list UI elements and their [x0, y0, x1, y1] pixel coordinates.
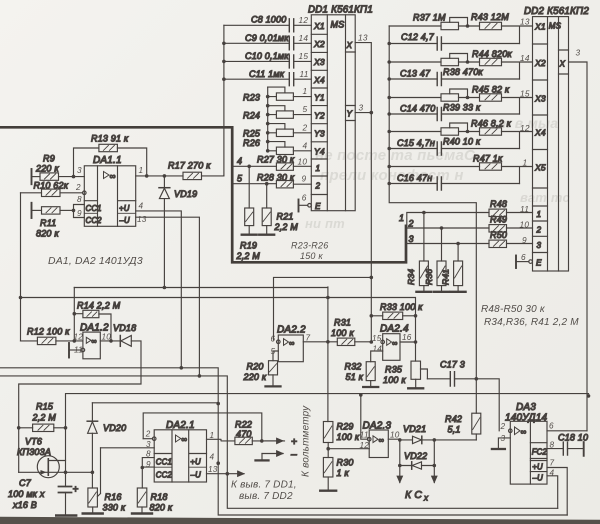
- wire +U vertical to DA2.1 pin4 and bottom rail: [216, 404, 567, 515]
- svg-text:VD22: VD22: [404, 451, 427, 461]
- svg-text:R22: R22: [235, 419, 252, 429]
- svg-text:13: 13: [208, 465, 218, 474]
- node K Cx arrows: [400, 466, 435, 503]
- svg-text:9: 9: [146, 460, 151, 469]
- resistor R22 470: [235, 419, 285, 444]
- svg-text:8: 8: [550, 440, 555, 449]
- svg-text:6: 6: [302, 192, 307, 202]
- svg-text:VT6: VT6: [25, 437, 42, 447]
- resistor R9 220k: [32, 154, 85, 185]
- capacitor C7 100mk x 16V: [8, 472, 79, 515]
- svg-text:14: 14: [299, 33, 309, 43]
- svg-text:С10 0,1мк: С10 0,1мк: [245, 51, 289, 61]
- svg-text:R44 820к: R44 820к: [472, 49, 512, 59]
- wire DA3 -U pin4: [547, 476, 558, 509]
- wire DA3 pin3 ground: [492, 438, 510, 449]
- diode VD22: [398, 440, 436, 469]
- svg-text:DA2.2: DA2.2: [277, 324, 306, 335]
- svg-text:13: 13: [137, 215, 147, 224]
- svg-text:R43 12М: R43 12М: [471, 12, 509, 22]
- svg-text:220 к: 220 к: [35, 164, 59, 174]
- svg-text:820 к: 820 к: [36, 229, 59, 239]
- transistor VT6 KP303A: [17, 428, 67, 478]
- svg-text:2: 2: [536, 225, 542, 234]
- resistor R43 12M: [471, 12, 533, 44]
- svg-text:R23: R23: [243, 92, 260, 102]
- svg-text:8: 8: [146, 449, 151, 458]
- resistor R29 100k: [323, 421, 359, 450]
- resistor R47 1k: [389, 153, 532, 183]
- svg-text:470: 470: [236, 429, 252, 439]
- svg-text:5: 5: [303, 104, 308, 114]
- svg-text:R24: R24: [243, 110, 260, 120]
- op-amp DA3 140UD14: [505, 402, 548, 484]
- svg-text:CC2: CC2: [156, 470, 173, 479]
- svg-text:15: 15: [372, 334, 382, 343]
- svg-text:5: 5: [271, 347, 276, 356]
- svg-text:–U: –U: [532, 473, 544, 482]
- svg-text:1: 1: [303, 86, 308, 96]
- svg-text:1: 1: [210, 431, 215, 440]
- svg-text:3: 3: [537, 241, 542, 250]
- svg-text:11: 11: [300, 69, 309, 79]
- svg-text:5,1: 5,1: [448, 424, 461, 434]
- wire C17 to DA3 input: [476, 379, 499, 431]
- label K voltmetru: [301, 405, 312, 477]
- svg-text:R12 100 к: R12 100 к: [27, 327, 70, 337]
- svg-text:14: 14: [373, 344, 383, 353]
- resistor R28 30k: [257, 173, 311, 188]
- resistor R14 2,2M feedback: [73, 288, 121, 341]
- svg-text:R19: R19: [240, 241, 257, 251]
- svg-text:Y: Y: [347, 110, 353, 119]
- svg-text:16: 16: [402, 333, 412, 342]
- svg-text:К выв. 7 DD1,: К выв. 7 DD1,: [231, 480, 297, 491]
- wire supply bus -U DA1 (y376): [0, 374, 227, 474]
- label R48-R50 30k / R34,R36,R41 2,2M: [481, 304, 579, 328]
- svg-text:ни пт: ни пт: [305, 216, 345, 231]
- wire DA1.1 output: [136, 174, 183, 178]
- svg-text:С18 10: С18 10: [558, 432, 588, 442]
- node voltmeter plus arrow: [265, 437, 297, 448]
- op-amp DA2.3: [328, 395, 391, 458]
- svg-text:Y1: Y1: [314, 92, 325, 102]
- svg-text:3: 3: [77, 166, 82, 175]
- op-amp DA2.1: [101, 420, 207, 482]
- svg-text:R38 470к: R38 470к: [443, 67, 483, 77]
- svg-text:R40 10 к: R40 10 к: [443, 136, 481, 146]
- node voltmeter minus arrow: [256, 450, 298, 461]
- svg-text:–U: –U: [119, 216, 131, 225]
- resistor R48 30k: [489, 199, 533, 217]
- svg-text:DD2 К561КП2: DD2 К561КП2: [524, 6, 589, 17]
- svg-text:С8 1000: С8 1000: [251, 15, 286, 25]
- svg-text:∞: ∞: [110, 171, 116, 181]
- resistor R21 2,2M: [259, 184, 298, 235]
- op-amp DA2.4: [371, 323, 416, 361]
- svg-text:X2: X2: [313, 39, 325, 49]
- faint print bleed-through (decorative): [305, 115, 570, 231]
- svg-text:140УД14: 140УД14: [505, 412, 548, 423]
- svg-text:R21: R21: [277, 212, 294, 222]
- svg-text:С13 47: С13 47: [400, 68, 431, 78]
- resistor R41 2,2M: [440, 244, 465, 292]
- label K vyv.7 DD1: [231, 480, 297, 503]
- svg-text:E: E: [536, 259, 542, 268]
- svg-text:R15: R15: [36, 402, 54, 412]
- svg-text:2,2 М: 2,2 М: [236, 251, 261, 261]
- svg-text:R18: R18: [151, 492, 168, 502]
- op-amp DA2.2: [273, 324, 306, 361]
- svg-text:1: 1: [399, 213, 404, 223]
- resistor R10 62k: [21, 181, 87, 197]
- wire DA2.1 output pin1: [207, 439, 235, 441]
- resistor R45 82k: [472, 84, 533, 114]
- svg-text:100 к: 100 к: [331, 328, 354, 338]
- svg-text:4: 4: [139, 201, 144, 210]
- svg-text:13: 13: [358, 32, 368, 42]
- svg-text:2: 2: [302, 122, 308, 132]
- svg-text:R10 62к: R10 62к: [34, 181, 69, 191]
- svg-text:E: E: [315, 202, 321, 211]
- svg-text:CC1: CC1: [86, 204, 102, 213]
- multiplexer DD2 K561KP2: [524, 6, 589, 271]
- capacitor C16 47n: [389, 173, 519, 190]
- resistor R30 1k: [320, 449, 353, 491]
- wire net 1: [399, 211, 489, 226]
- svg-text:2: 2: [145, 429, 151, 438]
- wire VD19 net vertical to R29: [327, 287, 329, 422]
- screen shield thick line: [0, 127, 406, 262]
- wire net 2: [407, 219, 489, 230]
- DA2.3 pin numbers: [360, 430, 400, 450]
- svg-text:ват тс: ват тс: [520, 190, 570, 205]
- svg-text:R45 82 к: R45 82 к: [472, 84, 510, 94]
- svg-text:КП303А: КП303А: [17, 447, 51, 457]
- svg-text:R36: R36: [424, 269, 434, 285]
- svg-text:прели конефаст н: прели конефаст н: [320, 167, 464, 184]
- svg-text:R34,R36, R41 2,2 М: R34,R36, R41 2,2 М: [484, 317, 579, 328]
- svg-text:2: 2: [75, 183, 81, 192]
- svg-text:С12 4,7: С12 4,7: [401, 32, 435, 42]
- resistor R11 820k: [32, 203, 85, 239]
- bottom page edge shadow: [0, 517, 600, 524]
- resistor R12 100k: [21, 327, 83, 345]
- wire DA2.3 output: [388, 438, 412, 442]
- svg-text:X3: X3: [534, 94, 546, 104]
- capacitor C12 4,7: [389, 32, 519, 50]
- resistor R15 2,2M: [19, 402, 68, 432]
- wire R10 node vertical: [19, 193, 23, 341]
- svg-text:Y2: Y2: [314, 110, 325, 120]
- wire DA1.1 -U pin 13 to bus: [136, 217, 200, 376]
- svg-text:MS: MS: [549, 22, 562, 31]
- svg-text:R34: R34: [406, 269, 416, 285]
- svg-text:R37 1М: R37 1М: [413, 13, 446, 23]
- svg-text:12: 12: [299, 15, 309, 25]
- svg-text:R20: R20: [247, 362, 264, 372]
- resistor R24 150k trimmer: [243, 106, 311, 126]
- svg-text:1: 1: [537, 210, 542, 219]
- svg-text:К вольтметру: К вольтметру: [301, 405, 312, 477]
- svg-text:2: 2: [408, 219, 414, 229]
- zener diode VD19: [74, 176, 328, 289]
- wire DA2.1 -U pin13 out: [207, 473, 245, 475]
- svg-text:+: +: [73, 485, 79, 496]
- svg-text:R23-R26: R23-R26: [291, 241, 328, 251]
- svg-text:9: 9: [302, 174, 307, 184]
- svg-text:X4: X4: [313, 75, 325, 85]
- DD1 pin numbers: [298, 15, 368, 203]
- svg-text:R41: R41: [440, 269, 450, 285]
- resistor R36 2,2M: [424, 228, 449, 292]
- svg-text:R16: R16: [105, 492, 122, 502]
- svg-text:∞: ∞: [91, 337, 97, 346]
- svg-text:X3: X3: [313, 57, 325, 67]
- svg-text:15: 15: [299, 51, 309, 61]
- label DA1, DA2 1401UD3: [48, 256, 143, 267]
- svg-text:11: 11: [74, 346, 83, 355]
- svg-text:R26: R26: [243, 138, 260, 148]
- svg-text:820 к: 820 к: [150, 503, 173, 513]
- svg-text:CC1: CC1: [156, 457, 172, 466]
- svg-text:DA1, DA2 1401УД3: DA1, DA2 1401УД3: [48, 256, 143, 267]
- svg-text:С11 1мк: С11 1мк: [249, 69, 285, 79]
- svg-text:10: 10: [390, 430, 400, 439]
- diode VD21: [403, 424, 476, 444]
- svg-text:R47 1к: R47 1к: [473, 153, 503, 163]
- capacitor C18 10: [547, 432, 588, 456]
- svg-text:8: 8: [77, 195, 82, 204]
- resistor R39 33k trimmer: [389, 89, 481, 112]
- node E DD2 with terminal: [516, 256, 532, 269]
- svg-text:–: –: [290, 450, 297, 461]
- wire net 4: [233, 156, 276, 168]
- resistor R44 820k: [472, 49, 533, 79]
- svg-text:220 к: 220 к: [243, 372, 267, 382]
- svg-text:С7: С7: [19, 478, 32, 488]
- capacitor C14 470: [389, 103, 519, 120]
- svg-text:FC2: FC2: [532, 448, 548, 457]
- wire net 3: [407, 234, 489, 245]
- resistor R38 470k trimmer: [389, 54, 483, 77]
- wire DA2.1 pin2 feedback (y413): [143, 413, 262, 441]
- svg-text:–U: –U: [190, 470, 202, 479]
- svg-text:х: х: [423, 494, 429, 503]
- DA3 pin numbers: [500, 422, 555, 478]
- svg-text:DA2.1: DA2.1: [166, 420, 195, 431]
- resistor R19 2,2M: [236, 166, 261, 261]
- svg-text:+U: +U: [532, 463, 543, 472]
- svg-text:2: 2: [500, 422, 506, 431]
- capacitor C10 0,1mk: [224, 51, 311, 68]
- svg-text:100 к: 100 к: [337, 432, 360, 442]
- svg-text:12: 12: [360, 441, 370, 450]
- svg-text:R27 30 к: R27 30 к: [257, 155, 295, 165]
- DD2 output X wire to DA3: [569, 62, 588, 431]
- svg-text:7: 7: [306, 333, 311, 342]
- op-amp DA1.2: [69, 323, 109, 359]
- wire capacitor bus to R17: [222, 25, 226, 175]
- DA1.2 pin numbers: [74, 332, 112, 354]
- svg-text:+U: +U: [190, 457, 201, 466]
- svg-text:1: 1: [139, 166, 144, 175]
- wire supply bus +U DA1 (y368): [0, 366, 220, 405]
- op-amp DA1.1: [84, 155, 135, 226]
- svg-text:100 мк х: 100 мк х: [8, 489, 45, 499]
- resistor R42 5,1: [445, 379, 481, 440]
- capacitor C15 4,7n: [389, 138, 519, 155]
- wire DA3 +U pin7: [547, 468, 567, 516]
- svg-text:R31: R31: [334, 318, 351, 328]
- svg-text:6: 6: [521, 252, 526, 262]
- svg-text:+U: +U: [119, 204, 130, 213]
- DA1.1 pin numbers: [75, 166, 147, 224]
- svg-text:3: 3: [576, 48, 581, 58]
- capacitor C17 3: [427, 359, 478, 386]
- resistor R50 30k: [489, 230, 533, 248]
- svg-text:4: 4: [303, 140, 308, 150]
- svg-text:R25: R25: [243, 128, 261, 138]
- svg-text:4: 4: [210, 452, 215, 461]
- svg-text:13: 13: [520, 17, 530, 27]
- svg-text:VD20: VD20: [103, 423, 126, 433]
- svg-text:R14 2,2 М: R14 2,2 М: [77, 300, 121, 310]
- resistor R13 91k feedback: [74, 134, 147, 177]
- svg-text:1 к: 1 к: [337, 468, 350, 478]
- svg-text:3: 3: [409, 234, 414, 244]
- resistor R23 150k trimmer: [243, 87, 311, 151]
- svg-text:∞: ∞: [379, 436, 385, 445]
- resistor R20 220k: [243, 361, 281, 387]
- svg-text:С17 3: С17 3: [440, 359, 465, 369]
- svg-text:R35: R35: [385, 365, 403, 375]
- resistor R25 150k trimmer: [243, 124, 311, 144]
- wire DD2 left bus: [387, 26, 476, 379]
- svg-text:X5: X5: [534, 163, 546, 173]
- multiplexer DD1 K561KP1: [308, 4, 373, 211]
- svg-text:∞: ∞: [289, 338, 295, 347]
- DD1 output X and Y wires: [355, 43, 373, 344]
- wire net 5: [233, 173, 276, 185]
- node E DD1 with terminal: [299, 200, 312, 212]
- diode VD18: [17, 323, 141, 472]
- svg-text:∞: ∞: [392, 338, 398, 347]
- svg-text:330 к: 330 к: [103, 503, 126, 513]
- svg-text:X: X: [559, 60, 566, 69]
- svg-text:R29: R29: [337, 421, 354, 431]
- resistor R27 30k: [257, 155, 311, 171]
- resistor R18 820k: [132, 466, 173, 514]
- svg-text:выв. 7 DD2: выв. 7 DD2: [239, 491, 293, 502]
- svg-text:4: 4: [237, 156, 242, 166]
- capacitor C9 0,01mk: [224, 33, 311, 50]
- resistor R16 330k trimmer: [83, 448, 126, 514]
- resistor R26 150k trimmer: [243, 138, 311, 155]
- DA2.4 pin numbers: [372, 333, 412, 354]
- svg-text:R17 270 к: R17 270 к: [168, 161, 211, 171]
- svg-text:3: 3: [146, 440, 151, 449]
- svg-text:12: 12: [74, 332, 84, 341]
- svg-text:R39 33 к: R39 33 к: [443, 102, 481, 112]
- svg-text:VD18: VD18: [113, 323, 136, 333]
- svg-text:9: 9: [77, 209, 82, 218]
- svg-text:х16 В: х16 В: [12, 500, 37, 510]
- svg-text:X: X: [346, 41, 353, 50]
- svg-text:MS: MS: [331, 20, 345, 30]
- capacitor C11 1mk: [224, 69, 311, 86]
- svg-text:+: +: [291, 437, 297, 448]
- svg-text:С9 0,01мк: С9 0,01мк: [245, 33, 289, 43]
- resistor R33 100k feedback: [371, 302, 423, 320]
- svg-text:R32: R32: [345, 362, 362, 372]
- wire DD1 Y output to DA2.2 input: [274, 277, 372, 339]
- svg-text:51 к: 51 к: [346, 372, 364, 382]
- svg-text:R48-R50 30 к: R48-R50 30 к: [481, 304, 546, 315]
- capacitor C8 1000: [224, 15, 311, 32]
- svg-text:7: 7: [550, 458, 555, 467]
- svg-text:Y3: Y3: [314, 129, 325, 139]
- svg-text:11: 11: [360, 430, 369, 439]
- svg-text:т в мыа: т в мыа: [498, 115, 558, 131]
- svg-text:R30: R30: [337, 457, 354, 467]
- wire feedback bus DA3 output (y395): [66, 393, 591, 428]
- wire feedback net W297: [21, 296, 418, 361]
- wire DA2.2 output: [303, 340, 337, 344]
- svg-text:X1: X1: [313, 21, 325, 31]
- svg-text:6: 6: [271, 334, 276, 343]
- svg-text:CC2: CC2: [86, 216, 103, 225]
- resistor R32 51k: [345, 362, 379, 388]
- svg-text:VD21: VD21: [403, 424, 426, 434]
- resistor R17 270k: [168, 161, 224, 180]
- svg-text:VD19: VD19: [174, 189, 197, 199]
- wire DA3 output pin6: [547, 430, 587, 432]
- svg-text:R9: R9: [43, 154, 55, 164]
- svg-text:R28 30 к: R28 30 к: [257, 173, 295, 183]
- svg-text:3: 3: [359, 102, 364, 112]
- svg-text:X1: X1: [534, 22, 546, 32]
- label R23-R26 150k: [291, 241, 328, 262]
- resistor R34 2,2M: [406, 213, 431, 292]
- svg-text:6: 6: [549, 422, 554, 431]
- resistor R35 100k trimmer: [383, 361, 427, 388]
- resistor R46 8,2k: [471, 118, 533, 148]
- svg-text:2,2 М: 2,2 М: [274, 222, 299, 232]
- capacitor C13 47: [389, 68, 519, 85]
- wire bus4 VD20 to DA2.1 (y403.5): [92, 402, 218, 404]
- resistor R49 30k: [489, 215, 533, 233]
- resistor R40 10k trimmer: [389, 123, 481, 146]
- wire -U bottom rail: [226, 472, 558, 508]
- svg-text:R48: R48: [490, 199, 507, 209]
- DA2.1 pin numbers: [145, 429, 218, 474]
- svg-text:К С: К С: [405, 490, 422, 501]
- svg-text:R42: R42: [445, 414, 462, 424]
- svg-text:R50: R50: [490, 230, 507, 240]
- svg-text:2,2 М: 2,2 М: [32, 413, 57, 423]
- svg-text:R33 100 к: R33 100 к: [380, 302, 423, 312]
- svg-text:5: 5: [237, 173, 243, 183]
- diode VD20: [66, 403, 127, 474]
- svg-text:3: 3: [501, 434, 506, 443]
- svg-text:100 к: 100 к: [383, 375, 406, 385]
- svg-text:150 к: 150 к: [300, 251, 323, 261]
- svg-text:DD1 К561КП1: DD1 К561КП1: [308, 4, 373, 15]
- wire DA1.1 +U pin 4 to bus: [136, 211, 182, 368]
- svg-text:DA1.1: DA1.1: [93, 155, 122, 166]
- resistor R37 1M trimmer: [389, 13, 479, 30]
